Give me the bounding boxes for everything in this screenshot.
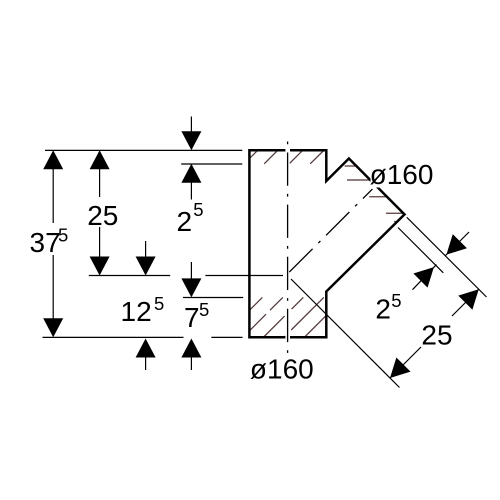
svg-text:25: 25 bbox=[421, 320, 452, 351]
svg-text:25: 25 bbox=[87, 200, 118, 231]
svg-text:5: 5 bbox=[199, 299, 209, 320]
svg-text:ø160: ø160 bbox=[250, 353, 314, 384]
svg-text:7: 7 bbox=[184, 302, 200, 333]
svg-text:5: 5 bbox=[193, 199, 203, 220]
svg-text:12: 12 bbox=[121, 296, 152, 327]
svg-text:2: 2 bbox=[177, 206, 193, 237]
svg-text:5: 5 bbox=[58, 225, 68, 246]
svg-text:5: 5 bbox=[391, 290, 401, 311]
svg-text:2: 2 bbox=[375, 294, 391, 325]
svg-text:37: 37 bbox=[30, 227, 61, 258]
svg-text:5: 5 bbox=[154, 293, 164, 314]
svg-text:ø160: ø160 bbox=[370, 159, 434, 190]
